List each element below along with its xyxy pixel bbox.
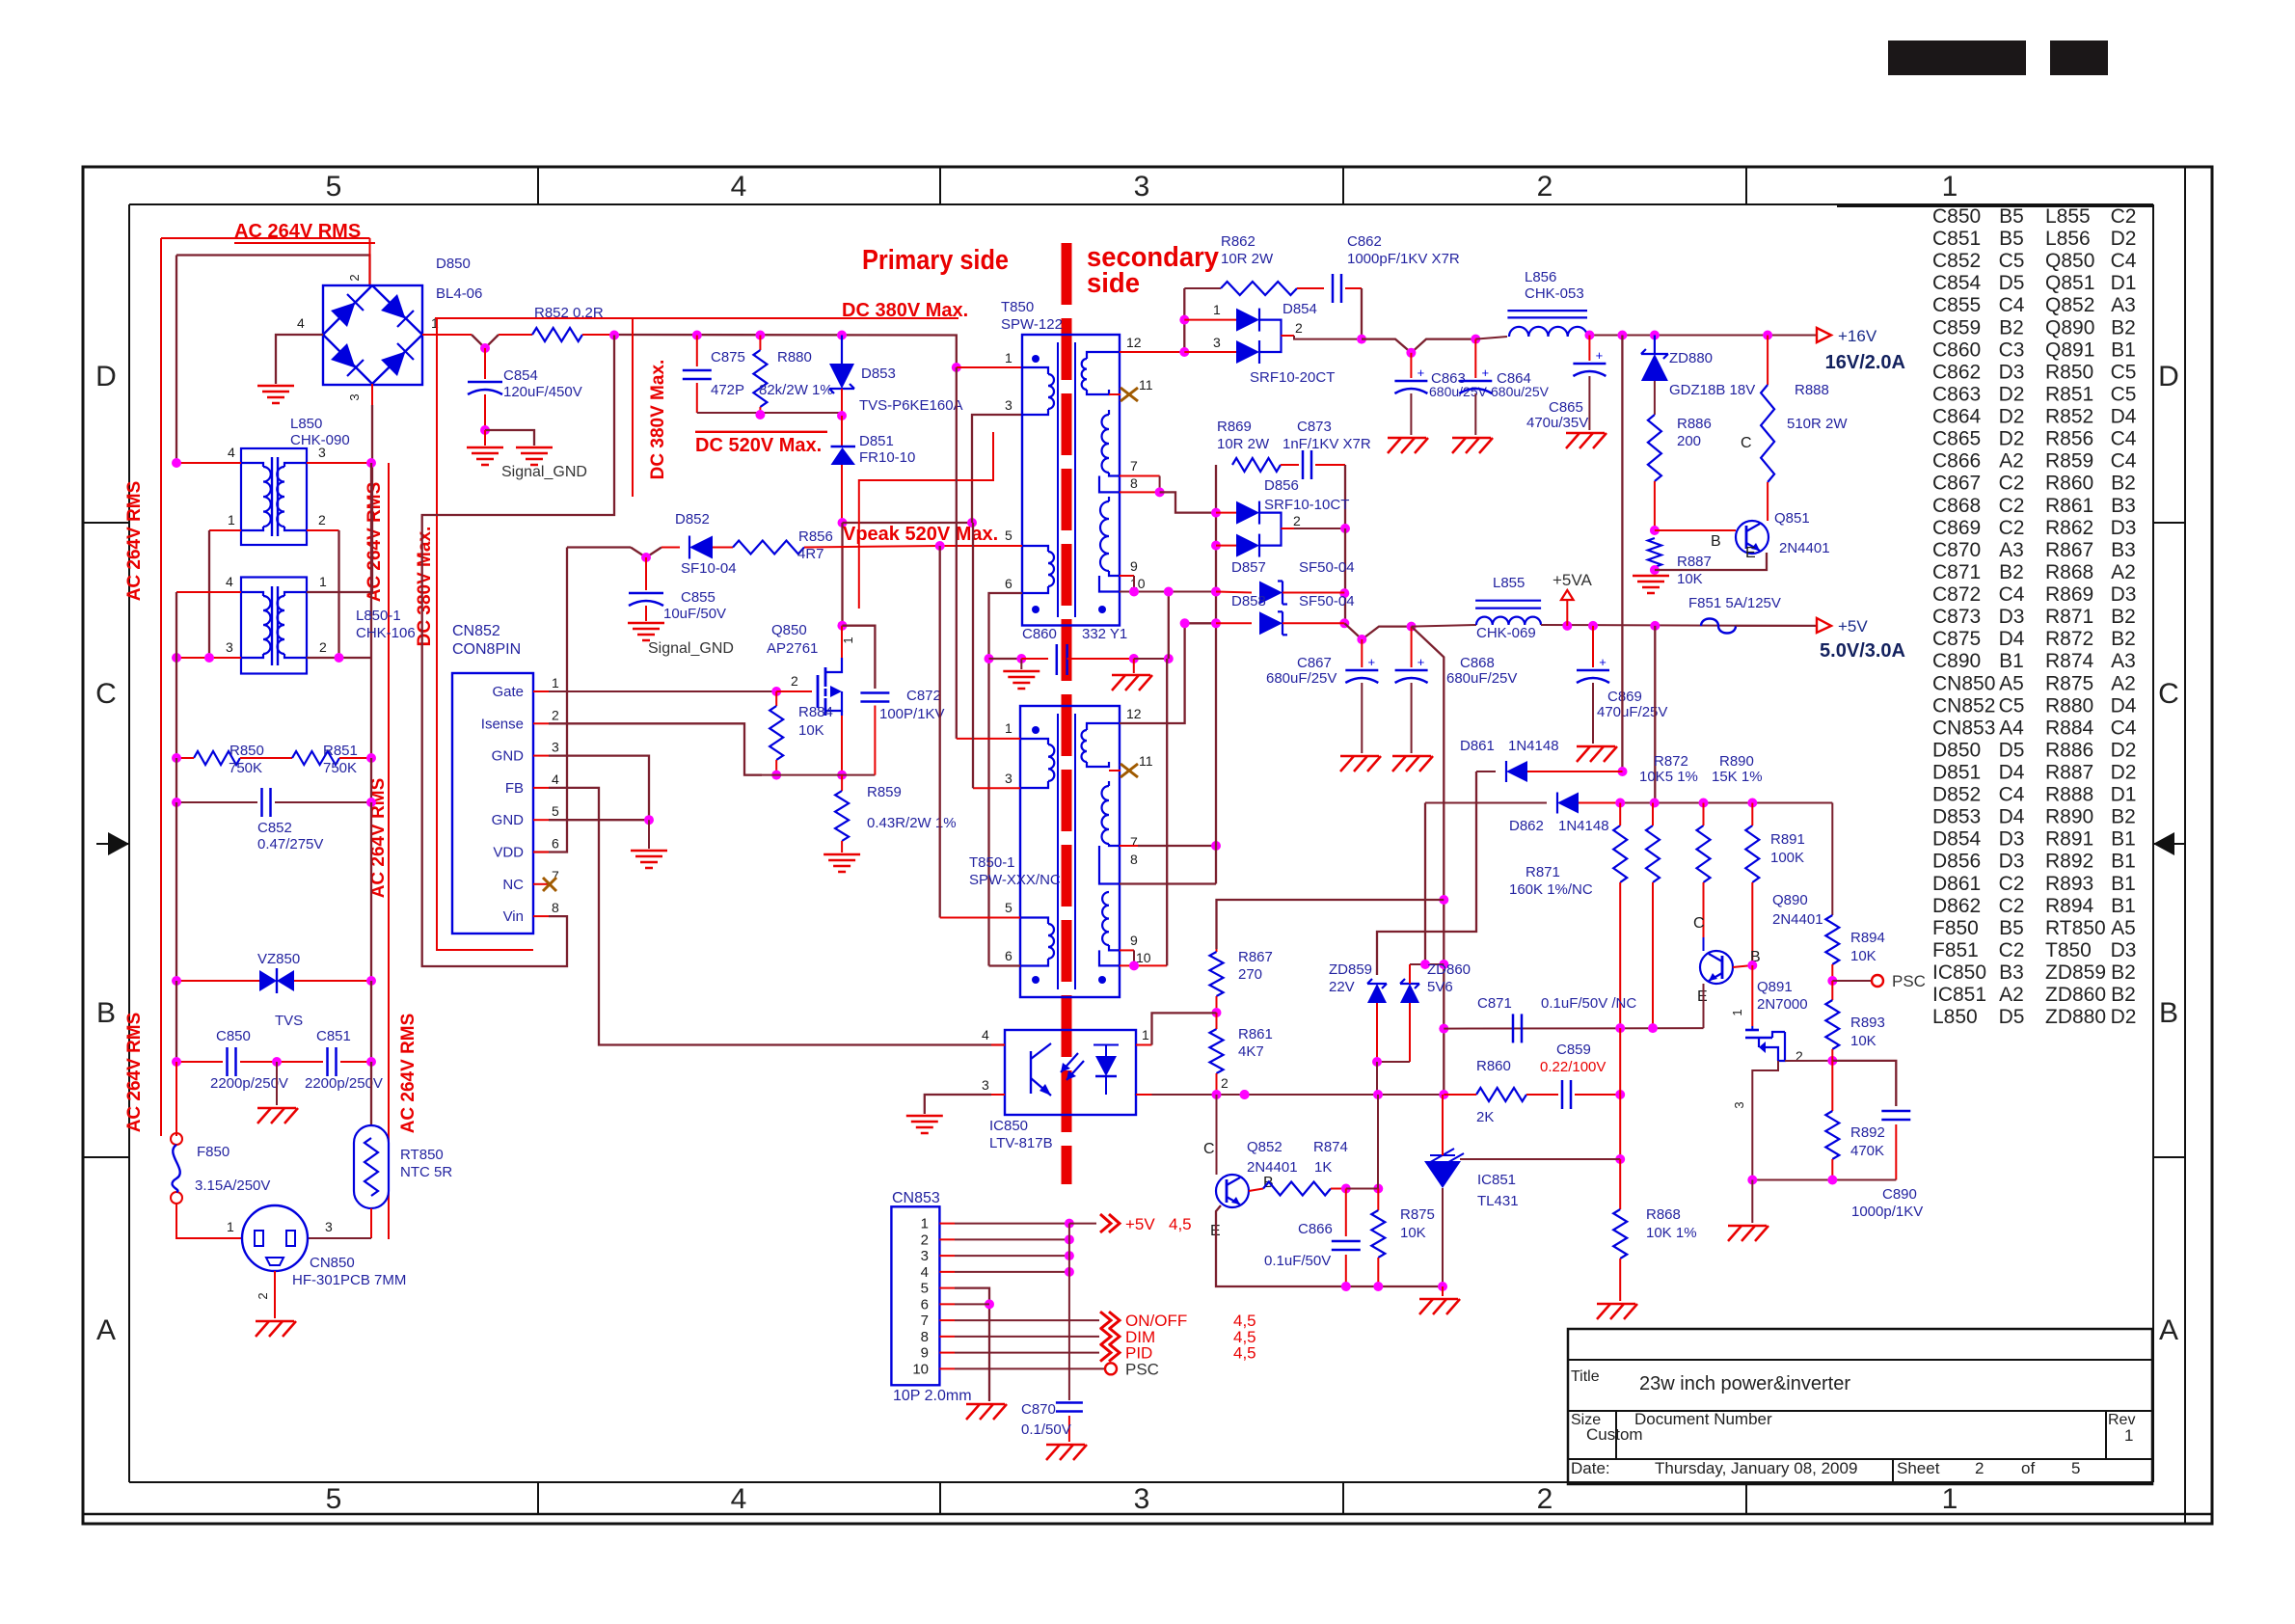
svg-text:3: 3: [347, 393, 362, 400]
no-connect X on CN852 pin7: [543, 878, 556, 891]
wire L850 to L850-1 links: [208, 530, 210, 658]
svg-text:R893: R893: [1850, 1015, 1885, 1031]
svg-text:side: side: [1087, 268, 1140, 299]
resistor R880 82k/2W 1%: [759, 336, 761, 351]
wire +5V to VCC rail: [1654, 626, 1656, 803]
no-connect X T850-1 pin11: [1120, 764, 1138, 777]
capacitor C867 680uF/25V: [1361, 639, 1363, 667]
bridge rectifier D850 BL4-06: [323, 285, 422, 385]
svg-text:C4: C4: [2111, 428, 2137, 450]
svg-text:R868: R868: [2045, 561, 2093, 583]
svg-text:R862: R862: [2045, 517, 2093, 539]
wire bridge pin2 red stub: [369, 238, 371, 285]
svg-text:4: 4: [552, 771, 559, 787]
svg-text:C4: C4: [1999, 583, 2025, 606]
svg-text:C2: C2: [1999, 939, 2025, 961]
svg-text:C4: C4: [1999, 784, 2025, 806]
svg-text:D861: D861: [1932, 873, 1981, 895]
svg-text:D854: D854: [1282, 301, 1317, 317]
wire CN852 GND5 to ground: [549, 819, 649, 821]
wire Vpeak node to T850 pin3: [838, 518, 848, 528]
capacitor C859 0.22/100V: [1561, 1080, 1564, 1109]
svg-text:5: 5: [2071, 1459, 2080, 1477]
svg-text:B1: B1: [2111, 851, 2136, 873]
svg-text:R886: R886: [1677, 416, 1712, 432]
svg-text:4: 4: [226, 574, 233, 589]
red annotation Vpeak bracket: [859, 432, 993, 609]
svg-text:100P/1KV: 100P/1KV: [879, 706, 945, 722]
svg-text:A4: A4: [1999, 717, 2024, 739]
transistor Q852 2N4401: [1216, 1175, 1249, 1207]
svg-text:4: 4: [297, 315, 305, 331]
svg-text:SPW-XXX/NC: SPW-XXX/NC: [969, 872, 1061, 888]
T850-1 pin 12 wire up to D858 row: [1120, 623, 1216, 723]
svg-text:470u/35V: 470u/35V: [1526, 415, 1588, 431]
MOSFET Q891 2N7000: [1751, 965, 1753, 1026]
wire IC850 pin1 up to divider node: [1152, 1013, 1217, 1044]
svg-text:3: 3: [318, 445, 326, 460]
svg-text:Vpeak 520V Max.: Vpeak 520V Max.: [843, 524, 998, 545]
svg-text:1: 1: [1730, 1009, 1744, 1015]
svg-text:1: 1: [228, 512, 235, 528]
wire TL431 cathode row: [1460, 1158, 1620, 1160]
wire secondary gnd to T850 pins 9/10: [1134, 658, 1169, 660]
svg-text:C851: C851: [316, 1028, 351, 1044]
svg-text:+5V: +5V: [1125, 1215, 1155, 1233]
svg-text:C869: C869: [1607, 689, 1642, 705]
svg-text:L855: L855: [2045, 205, 2091, 228]
bottom rail Q852 emitter: [1216, 1205, 1443, 1286]
svg-text:R859: R859: [2045, 450, 2093, 473]
ground signal CN852: [631, 850, 667, 853]
svg-text:C852: C852: [257, 820, 292, 836]
resistor R867 270: [1210, 952, 1224, 996]
svg-text:SF10-04: SF10-04: [681, 560, 737, 577]
svg-text:D2: D2: [1999, 406, 2025, 428]
svg-text:D4: D4: [2111, 406, 2137, 428]
pin stubs T850-1 left: [957, 738, 1020, 740]
svg-text:470K: 470K: [1850, 1143, 1884, 1159]
choke L850-1 CHK-106: [241, 578, 307, 674]
svg-text:B2: B2: [2111, 316, 2136, 338]
ground rail Q891 source: [1752, 1179, 1896, 1181]
pin stubs L850: [176, 462, 241, 464]
wire Q891 drain to R893: [1785, 1060, 1832, 1062]
svg-text:0.1uF/50V: 0.1uF/50V: [1264, 1253, 1331, 1269]
svg-text:R869: R869: [2045, 583, 2093, 606]
svg-text:FR10-10: FR10-10: [859, 449, 915, 466]
ground chassis C865: [1566, 432, 1605, 435]
wire D858 anode rail down to T850-1 pins 7/8: [1215, 623, 1217, 883]
svg-text:C890: C890: [1932, 650, 1981, 672]
ground chassis C869: [1577, 745, 1615, 748]
svg-text:D: D: [95, 361, 117, 392]
svg-text:E: E: [1697, 988, 1708, 1005]
zener ZD880 GDZ18B 18V: [1654, 336, 1656, 356]
svg-text:680uF/25V: 680uF/25V: [1446, 670, 1517, 687]
svg-text:D3: D3: [2111, 583, 2137, 606]
svg-text:DC 380V Max.: DC 380V Max.: [415, 527, 435, 647]
svg-text:B1: B1: [2111, 895, 2136, 917]
svg-text:AP2761: AP2761: [767, 640, 818, 657]
supervisor VCC rail: [1620, 802, 1832, 804]
svg-text:RT850: RT850: [400, 1147, 444, 1163]
svg-text:160K 1%/NC: 160K 1%/NC: [1509, 881, 1593, 898]
zone column ticks bottom: [537, 1482, 539, 1514]
svg-text:2: 2: [1295, 320, 1303, 336]
svg-text:C: C: [2158, 678, 2179, 710]
zener ZD859 22V: [1367, 984, 1387, 1003]
svg-text:A3: A3: [1999, 539, 2024, 561]
svg-text:510R 2W: 510R 2W: [1787, 416, 1848, 432]
svg-text:R890: R890: [1719, 753, 1754, 770]
wire right trunk from pin3 row: [370, 463, 372, 758]
svg-text:4: 4: [982, 1027, 989, 1042]
svg-text:SF50-04: SF50-04: [1299, 559, 1355, 576]
svg-text:C871: C871: [1477, 995, 1512, 1012]
svg-text:T850: T850: [1001, 299, 1034, 315]
svg-text:B3: B3: [2111, 539, 2136, 561]
svg-text:680u/25V: 680u/25V: [1429, 384, 1488, 399]
+16V output arrow: [1817, 328, 1831, 342]
svg-text:D3: D3: [1999, 828, 2025, 851]
wire feedback row R867 R861: [1216, 949, 1218, 952]
svg-text:D3: D3: [2111, 939, 2137, 961]
svg-text:A2: A2: [2111, 672, 2136, 694]
svg-text:2: 2: [256, 1292, 270, 1299]
svg-text:C865: C865: [1932, 428, 1981, 450]
resistor R894 10K: [1831, 803, 1833, 916]
svg-text:D2: D2: [2111, 228, 2137, 250]
svg-text:C: C: [95, 678, 117, 710]
svg-text:B2: B2: [2111, 984, 2136, 1006]
wire R867 tap from +5V: [1217, 900, 1444, 949]
capacitor C854 120uF/450V: [484, 348, 486, 379]
svg-text:D2: D2: [2111, 1006, 2137, 1028]
C871 feedback rail: [1444, 1027, 1703, 1030]
svg-text:C875: C875: [1932, 628, 1981, 650]
svg-text:D3: D3: [2111, 517, 2137, 539]
svg-text:D3: D3: [1999, 361, 2025, 383]
svg-text:2: 2: [1293, 513, 1301, 528]
svg-text:R856: R856: [2045, 428, 2093, 450]
wire bus from bridge pin1 with junction Y: [422, 334, 472, 336]
svg-text:B2: B2: [2111, 806, 2136, 828]
red annotation line right of EMI block: [388, 463, 390, 1239]
capacitor C866 0.1uF/50V: [1345, 1189, 1347, 1237]
svg-text:CON8PIN: CON8PIN: [452, 641, 521, 658]
wire Q852 collector: [1216, 1095, 1218, 1175]
svg-text:Q891: Q891: [1757, 979, 1793, 995]
svg-text:8: 8: [921, 1329, 929, 1345]
wire CN853 pin10 PSC: [955, 1367, 1105, 1369]
svg-text:4: 4: [731, 1483, 747, 1515]
wire F850 to CN850 pin1: [176, 1204, 242, 1238]
svg-text:6: 6: [1005, 576, 1012, 591]
wire +5V feed down feedback column: [1412, 627, 1444, 1095]
wire Q890 base: [1733, 965, 1752, 967]
svg-text:10K5 1%: 10K5 1%: [1639, 769, 1698, 785]
snubber capacitor C862 1000pF/1KV X7R: [1332, 274, 1335, 303]
diode D851 FR10-10: [841, 416, 843, 446]
svg-text:B3: B3: [2111, 495, 2136, 517]
svg-text:C870: C870: [1932, 539, 1981, 561]
svg-text:11: 11: [1139, 377, 1153, 392]
svg-text:C2: C2: [1999, 495, 2025, 517]
svg-text:F851 5A/125V: F851 5A/125V: [1688, 595, 1781, 611]
ground chassis C850/C851: [257, 1107, 296, 1110]
wire CN853 pin8 DIM: [955, 1336, 1099, 1338]
transistor Q851 2N4401: [1736, 521, 1768, 554]
svg-text:120uF/450V: 120uF/450V: [503, 384, 582, 400]
svg-text:B1: B1: [2111, 338, 2136, 361]
svg-text:680uF/25V: 680uF/25V: [1266, 670, 1336, 687]
svg-text:C875: C875: [711, 349, 745, 365]
svg-text:Title: Title: [1571, 1368, 1600, 1385]
svg-text:750K: 750K: [323, 760, 357, 776]
svg-text:1K: 1K: [1314, 1159, 1332, 1176]
svg-text:FB: FB: [505, 780, 524, 797]
svg-text:C866: C866: [1932, 450, 1981, 473]
svg-text:B: B: [2159, 997, 2178, 1029]
svg-text:D1: D1: [2111, 272, 2137, 294]
wire VDD supply from D852 to CN852 pin6: [533, 548, 567, 853]
svg-text:3: 3: [982, 1077, 989, 1093]
title block: [1568, 1329, 2152, 1484]
ground signal primary T850: [1003, 670, 1039, 673]
svg-text:D856: D856: [1932, 851, 1981, 873]
svg-text:R868: R868: [1646, 1206, 1681, 1223]
wire CN852 GND3 to GND5: [549, 756, 649, 821]
svg-text:D2: D2: [1999, 383, 2025, 405]
svg-text:D857: D857: [1231, 559, 1266, 576]
svg-text:C2: C2: [1999, 895, 2025, 917]
svg-text:1: 1: [1942, 1483, 1958, 1515]
svg-text:C868: C868: [1932, 495, 1981, 517]
svg-text:D2: D2: [2111, 762, 2137, 784]
svg-text:R887: R887: [1677, 554, 1712, 570]
wire source sense rail: [744, 774, 875, 776]
svg-text:TVS-P6KE160A: TVS-P6KE160A: [859, 397, 963, 414]
svg-text:1: 1: [1142, 1027, 1149, 1042]
svg-text:5: 5: [326, 1483, 342, 1515]
svg-text:CHK-106: CHK-106: [356, 625, 416, 641]
ground chassis C863: [1388, 437, 1426, 440]
filter choke L856 CHK-053: [1507, 310, 1587, 311]
svg-text:R850: R850: [229, 743, 264, 759]
svg-text:C4: C4: [2111, 450, 2137, 473]
wire Q851 base node: [1650, 526, 1660, 535]
primary/secondary isolation divider (thick red dashed line): [1062, 243, 1072, 1184]
svg-text:9: 9: [1130, 558, 1138, 574]
svg-text:C873: C873: [1932, 606, 1981, 628]
resistor R892 470K: [1831, 1061, 1833, 1111]
svg-text:A2: A2: [2111, 561, 2136, 583]
ground chassis C868: [1392, 755, 1431, 758]
svg-text:470uF/25V: 470uF/25V: [1597, 704, 1667, 720]
svg-text:T850: T850: [2045, 939, 2092, 961]
wire left trunk EMI: [175, 592, 177, 758]
svg-text:4R7: 4R7: [797, 546, 824, 562]
svg-text:ZD880: ZD880: [2045, 1006, 2106, 1028]
svg-text:R887: R887: [2045, 762, 2093, 784]
svg-text:+5VA: +5VA: [1552, 571, 1592, 589]
svg-text:CN852: CN852: [1932, 694, 1995, 717]
svg-text:1000pF/1KV X7R: 1000pF/1KV X7R: [1347, 251, 1460, 267]
svg-text:1: 1: [921, 1216, 929, 1232]
resistor R856 4R7: [733, 541, 804, 555]
svg-text:C862: C862: [1932, 361, 1981, 383]
svg-text:3: 3: [1005, 397, 1012, 413]
capacitor C871 0.1uF/50V /NC: [1512, 1014, 1515, 1042]
wire IC850 pin2 to feedback rail: [1136, 1094, 1152, 1096]
resistor R890 15K 1%: [1697, 826, 1711, 882]
svg-text:10K: 10K: [1400, 1225, 1426, 1241]
wire Q850 source to sense rail: [841, 716, 843, 775]
wire +16V down to D861: [1621, 336, 1623, 772]
svg-text:1: 1: [227, 1219, 234, 1234]
zener ZD860 5V6: [1400, 984, 1419, 1003]
svg-text:8: 8: [552, 900, 559, 915]
svg-text:DC 380V Max.: DC 380V Max.: [648, 360, 668, 480]
svg-text:1nF/1KV X7R: 1nF/1KV X7R: [1282, 436, 1371, 452]
fuse F850 3.15A/250V: [171, 1133, 182, 1145]
shunt regulator IC851 TL431: [1424, 1161, 1461, 1188]
zone column ticks top: [537, 167, 539, 204]
svg-text:R861: R861: [1238, 1026, 1273, 1042]
svg-text:C5: C5: [1999, 250, 2025, 272]
connector CN852 CON8PIN: [452, 673, 533, 934]
svg-text:C865: C865: [1549, 399, 1583, 416]
svg-text:D862: D862: [1509, 818, 1544, 834]
ground chassis TL431 anode: [1419, 1298, 1458, 1301]
resistor R851 750K: [292, 751, 339, 765]
resistor R861 4K7: [1210, 1029, 1224, 1073]
+5VA arrow tag: [1566, 600, 1568, 626]
svg-text:AC 264V RMS: AC 264V RMS: [124, 481, 145, 602]
svg-text:R867: R867: [2045, 539, 2093, 561]
T850-1 pin6 wire to gnd trunk: [989, 964, 1021, 966]
svg-text:100K: 100K: [1770, 850, 1804, 866]
wire Q850 drain: [837, 621, 847, 631]
svg-text:C2: C2: [1999, 517, 2025, 539]
svg-text:C854: C854: [503, 367, 538, 384]
svg-text:L856: L856: [1525, 269, 1556, 285]
wire D861 to ZD859 branch: [1377, 771, 1476, 975]
wire CN853 pin7 ON/OFF: [955, 1319, 1099, 1321]
svg-text:D4: D4: [1999, 762, 2025, 784]
T850 pin6 to primary gnd: [989, 593, 1023, 966]
winding phase dots T850-1: [1032, 726, 1039, 734]
svg-text:F850: F850: [1932, 917, 1979, 939]
capacitor C865 470u/35V: [1588, 336, 1590, 362]
svg-text:1: 1: [1942, 171, 1958, 203]
svg-text:R861: R861: [2045, 495, 2093, 517]
ground signal R859: [823, 853, 860, 856]
primary gnd row to C860: [989, 658, 1022, 660]
svg-text:AC 264V RMS: AC 264V RMS: [124, 1013, 145, 1133]
svg-text:10K: 10K: [1850, 1033, 1876, 1049]
wire bus down to T850-1 pin1: [956, 367, 958, 739]
svg-text:B1: B1: [1999, 650, 2024, 672]
svg-text:Q890: Q890: [2045, 316, 2094, 338]
svg-text:+: +: [1417, 365, 1425, 380]
svg-text:4: 4: [731, 171, 747, 203]
svg-text:D852: D852: [675, 511, 710, 528]
wire CN852 FB to optocoupler: [549, 788, 1005, 1045]
snubber R869 10R 2W: [1232, 458, 1281, 472]
svg-text:A5: A5: [2111, 917, 2136, 939]
wires CN853 pins 2-4 to +5V: [955, 1238, 1069, 1240]
resistor R888 510R 2W: [1767, 336, 1768, 386]
svg-text:2N4401: 2N4401: [1772, 911, 1823, 928]
svg-text:D4: D4: [1999, 628, 2025, 650]
svg-text:E: E: [1745, 545, 1756, 561]
svg-text:+5V: +5V: [1838, 617, 1868, 636]
svg-text:AC 264V RMS: AC 264V RMS: [364, 482, 385, 603]
svg-text:C867: C867: [1297, 655, 1332, 671]
svg-text:of: of: [2021, 1459, 2035, 1477]
svg-text:+: +: [1368, 655, 1376, 669]
wire D854 input rows: [1183, 288, 1185, 352]
wire Q890 emitter to C871 rail: [1703, 984, 1705, 1028]
svg-text:R888: R888: [2045, 784, 2093, 806]
svg-text:2K: 2K: [1476, 1109, 1494, 1125]
resistor R875 10K: [1377, 1189, 1379, 1211]
capacitor C864 680u/25V: [1474, 339, 1476, 378]
svg-text:C4: C4: [2111, 717, 2137, 739]
svg-text:Q890: Q890: [1772, 892, 1808, 908]
wire CN852 Isense: [549, 723, 762, 774]
svg-text:C: C: [1741, 435, 1752, 451]
wire CN853 pin9 PID: [955, 1352, 1099, 1354]
red annotation line DC380 near CN852: [437, 318, 533, 950]
no-connect X T850 pin11: [1120, 388, 1138, 401]
sheet center marker arrow left: [96, 843, 129, 845]
svg-text:B5: B5: [1999, 917, 2024, 939]
ground chassis CN853 pins5/6: [966, 1403, 1005, 1406]
fuse F851 5A/125V: [1701, 619, 1736, 634]
feedback rail to optocoupler diode: [1135, 1094, 1444, 1096]
ground signal C855: [628, 622, 664, 625]
svg-text:3: 3: [1134, 171, 1150, 203]
wire CN850 pin2 to ground: [274, 1271, 276, 1318]
svg-text:C2: C2: [1999, 873, 2025, 895]
svg-text:A: A: [96, 1314, 116, 1346]
svg-text:ZD859: ZD859: [1329, 961, 1372, 978]
sheet outer border frame: [83, 167, 2212, 1524]
svg-text:Vin: Vin: [503, 908, 524, 925]
svg-text:Q851: Q851: [2045, 272, 2094, 294]
wire T850-1 pin3 up to drain node: [972, 523, 974, 788]
svg-text:B2: B2: [2111, 628, 2136, 650]
svg-text:C859: C859: [1556, 1042, 1591, 1058]
svg-text:D852: D852: [1932, 784, 1981, 806]
svg-text:C852: C852: [1932, 250, 1981, 272]
svg-text:B1: B1: [2111, 828, 2136, 851]
redacted logo box 1: [1888, 41, 2026, 75]
svg-text:R886: R886: [2045, 739, 2093, 761]
sheet inner border lines: [129, 203, 2153, 205]
svg-text:2N7000: 2N7000: [1757, 996, 1808, 1013]
svg-text:R860: R860: [2045, 473, 2093, 495]
svg-text:CN853: CN853: [892, 1190, 940, 1206]
+16V rail after L856: [1589, 335, 1817, 337]
capacitor C850 2200p/250V: [176, 1061, 223, 1063]
svg-text:TVS: TVS: [275, 1013, 303, 1029]
svg-text:10: 10: [1136, 950, 1151, 965]
svg-text:6: 6: [921, 1296, 929, 1313]
